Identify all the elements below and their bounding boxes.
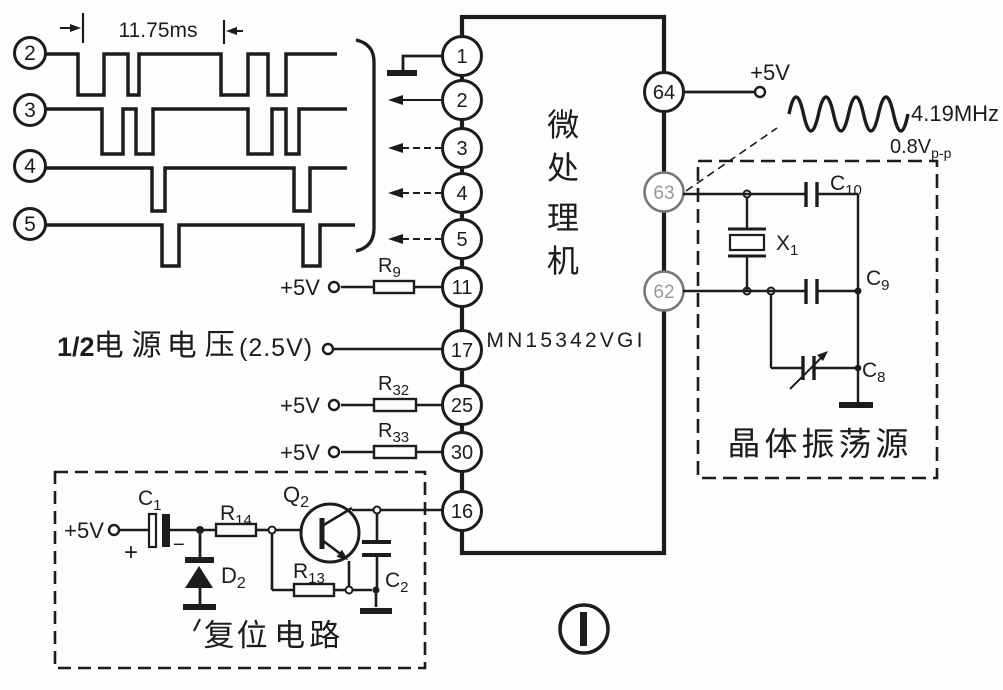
svg-text:3: 3 xyxy=(456,138,467,160)
svg-text:11.75ms: 11.75ms xyxy=(119,19,198,42)
svg-text:64: 64 xyxy=(653,82,675,104)
svg-text:−: − xyxy=(173,534,185,556)
svg-text:+5V: +5V xyxy=(64,518,104,543)
svg-text:63: 63 xyxy=(653,183,674,204)
svg-text:17: 17 xyxy=(451,340,473,362)
svg-text:11: 11 xyxy=(452,277,473,299)
svg-text:(2.5V): (2.5V) xyxy=(239,334,313,362)
svg-text:2: 2 xyxy=(456,90,467,112)
svg-text:4: 4 xyxy=(456,183,467,205)
svg-text:5: 5 xyxy=(24,213,36,236)
svg-text:+5V: +5V xyxy=(750,60,790,85)
svg-text:4: 4 xyxy=(24,155,36,178)
svg-text:62: 62 xyxy=(653,282,674,303)
svg-text:+: + xyxy=(124,539,138,566)
svg-text:25: 25 xyxy=(451,395,473,417)
svg-text:1/2: 1/2 xyxy=(57,332,95,362)
svg-text:+5V: +5V xyxy=(280,393,320,418)
svg-text:30: 30 xyxy=(451,442,473,464)
svg-text:3: 3 xyxy=(24,99,36,122)
svg-text:+5V: +5V xyxy=(280,275,320,300)
svg-text:+5V: +5V xyxy=(280,440,320,465)
svg-text:MN15342VGI: MN15342VGI xyxy=(486,329,645,352)
svg-text:5: 5 xyxy=(456,229,467,251)
svg-text:1: 1 xyxy=(456,46,467,68)
svg-text:16: 16 xyxy=(451,501,473,523)
svg-text:2: 2 xyxy=(24,42,36,65)
svg-text:4.19MHz: 4.19MHz xyxy=(911,101,999,126)
